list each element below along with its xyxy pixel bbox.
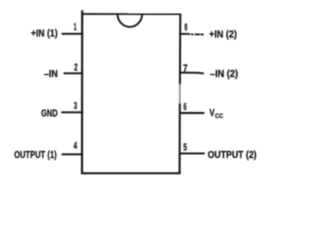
svg-text:1: 1 (74, 22, 77, 33)
svg-text:5: 5 (183, 142, 187, 153)
pin-1 index notch (118, 14, 143, 27)
svg-text:8: 8 (184, 23, 187, 34)
svg-text:2: 2 (74, 63, 78, 74)
pin 7 lead wire (179, 72, 204, 75)
svg-text:OUTPUT (1): OUTPUT (1) (14, 150, 57, 161)
pin 8 lead wire (179, 33, 203, 36)
pin 1 lead wire (62, 33, 84, 35)
svg-text:CC: CC (215, 113, 223, 120)
IC body U1 right edge faded scan segment (179, 84, 181, 104)
pin 6 lead wire (179, 112, 204, 114)
pin 5 lead wire (179, 152, 205, 154)
svg-text:3: 3 (74, 101, 78, 112)
svg-text:6: 6 (183, 102, 186, 113)
IC body U1 bottom edge (81, 172, 180, 174)
svg-text:OUTPUT (2): OUTPUT (2) (208, 150, 257, 161)
pin 3 lead wire (61, 111, 83, 113)
svg-text:–IN (2): –IN (2) (210, 69, 238, 80)
IC body U1 top edge (81, 13, 181, 15)
pin 2 lead wire (64, 72, 84, 74)
svg-text:7: 7 (183, 63, 188, 74)
IC body U1 left edge (81, 10, 83, 174)
svg-text:+IN (1): +IN (1) (31, 29, 58, 40)
svg-text:–IN: –IN (44, 69, 58, 80)
IC body U1 right edge (179, 14, 182, 175)
pin 4 lead wire (62, 153, 84, 155)
svg-text:+IN (2): +IN (2) (209, 29, 237, 40)
svg-text:4: 4 (73, 141, 77, 152)
svg-text:GND: GND (41, 109, 58, 120)
